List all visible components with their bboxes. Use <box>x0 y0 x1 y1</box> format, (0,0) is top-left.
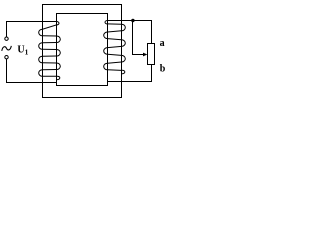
core inner rectangle <box>57 14 108 86</box>
core outer rectangle <box>43 5 122 98</box>
terminal circle top of U1 <box>5 37 8 40</box>
terminal circle bottom of U1 <box>5 56 8 59</box>
wire secondary top to potentiometer <box>108 21 152 44</box>
svg-text:U1: U1 <box>17 45 28 57</box>
wiper arrowhead <box>143 53 147 57</box>
wiper wire from junction <box>133 21 145 55</box>
wire secondary bottom rail to potentiometer <box>108 65 152 82</box>
junction dot <box>131 19 134 22</box>
wire left rail upper <box>6 22 8 37</box>
potentiometer body R <box>148 44 155 65</box>
wire bottom-left from source to primary <box>7 82 57 84</box>
primary coil winding <box>39 21 61 82</box>
wire left rail lower <box>6 59 8 83</box>
AC tilde symbol <box>2 46 11 50</box>
secondary coil winding <box>104 21 126 82</box>
svg-text:b: b <box>160 63 166 74</box>
svg-text:a: a <box>160 38 165 49</box>
wire top-left from source to primary <box>7 21 57 23</box>
